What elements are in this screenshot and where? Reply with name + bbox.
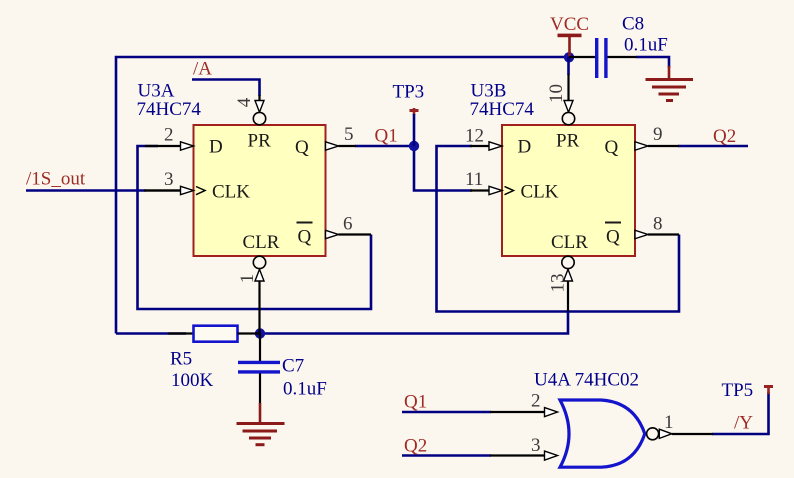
svg-text:74HC74: 74HC74	[137, 99, 202, 120]
svg-text:U4A 74HC02: U4A 74HC02	[534, 370, 639, 391]
svg-text:13: 13	[548, 274, 569, 293]
/1S_out black lead segment	[144, 189, 181, 191]
U3B pin 9 (Q) stub	[635, 142, 679, 150]
svg-text:Q: Q	[606, 227, 620, 248]
U3A pin 2 (D) stub	[145, 142, 194, 150]
svg-text:C8: C8	[622, 14, 644, 35]
svg-text:D: D	[518, 137, 532, 158]
ground for C7	[237, 403, 285, 445]
U4A pin 1 stub	[659, 429, 713, 438]
U3A pin 4 (PR) stub with bubble	[253, 95, 265, 125]
U3B pin 8 (Q̄) stub	[635, 230, 679, 238]
test point TP3	[410, 108, 419, 146]
svg-text:/A: /A	[193, 59, 212, 80]
svg-text:1: 1	[237, 274, 258, 284]
VCC power symbol	[558, 34, 582, 56]
svg-text:4: 4	[234, 97, 255, 107]
svg-text:D: D	[209, 137, 223, 158]
svg-text:CLR: CLR	[551, 232, 588, 253]
svg-text:10: 10	[546, 84, 567, 103]
U3A pin 6 (Q̄) stub	[326, 230, 372, 238]
wire C8 right to ground	[636, 57, 669, 68]
svg-text:R5: R5	[170, 349, 192, 370]
wire VCC top rail from left vertical to VCC junction	[116, 57, 569, 334]
svg-text:Q: Q	[295, 137, 309, 158]
svg-text:/1S_out: /1S_out	[26, 169, 86, 190]
U3B pin 11 (CLK) stub	[470, 186, 514, 194]
svg-text:1: 1	[664, 412, 674, 433]
U3B pin name Q̄	[605, 223, 621, 248]
U4A output bubble	[647, 428, 659, 440]
NOR gate U4A body	[560, 400, 645, 467]
svg-text:2: 2	[164, 125, 174, 146]
svg-text:0.1uF: 0.1uF	[283, 379, 327, 400]
wire Q̄A feedback to D of U3A	[138, 146, 372, 309]
svg-text:TP5: TP5	[722, 380, 754, 401]
svg-text:CLR: CLR	[243, 232, 280, 253]
wire CLR net from junction to CLR of U3B	[260, 310, 568, 334]
wire Q2 from pin9	[678, 145, 748, 148]
wire /1S_out to CLK of U3A	[26, 189, 146, 192]
U3A pin name Q̄	[297, 223, 313, 248]
wire /A net to PR of U3A	[192, 80, 260, 97]
svg-text:9: 9	[653, 124, 663, 145]
svg-text:TP3: TP3	[393, 82, 425, 103]
svg-text:Q: Q	[605, 137, 619, 158]
U3B pin 13 (CLR) stub with bubble	[562, 256, 574, 311]
svg-text:Q2: Q2	[713, 126, 736, 147]
wire Q̄B feedback to D of U3B	[437, 146, 680, 312]
svg-text:CLK: CLK	[521, 182, 559, 203]
svg-text:VCC: VCC	[550, 14, 589, 35]
op-amp U3B body	[502, 125, 635, 256]
svg-text:Q2: Q2	[404, 436, 427, 457]
svg-text:8: 8	[653, 214, 663, 235]
svg-text:6: 6	[343, 214, 353, 235]
resistor R5	[168, 326, 260, 342]
svg-text:0.1uF: 0.1uF	[624, 35, 668, 56]
svg-text:C7: C7	[282, 356, 304, 377]
svg-text:3: 3	[531, 435, 541, 456]
junction CLR/R5/C7 node	[255, 328, 265, 338]
op-amp U3A body	[194, 125, 326, 256]
svg-text:2: 2	[531, 391, 541, 412]
svg-text:11: 11	[465, 169, 483, 190]
svg-text:PR: PR	[248, 131, 272, 152]
svg-text:/Y: /Y	[734, 413, 753, 434]
svg-text:Q1: Q1	[404, 392, 427, 413]
wire Q1 from pin5 to junction	[355, 145, 414, 148]
svg-text:Q: Q	[298, 227, 312, 248]
U3B pin 10 (PR) stub with bubble	[562, 57, 574, 125]
svg-text:74HC74: 74HC74	[470, 99, 535, 120]
ground for C8	[646, 66, 694, 101]
U4A pin 3 stub	[490, 451, 558, 460]
svg-text:100K: 100K	[171, 370, 214, 391]
wire Q1 junction down to CLK of U3B	[414, 146, 472, 191]
capacitor C7	[238, 334, 280, 405]
U3B pin 12 (D) stub	[470, 142, 502, 150]
test point TP5	[764, 385, 773, 394]
wire CLR net left segment to R5	[116, 332, 186, 335]
wire Q1 to gate input pin2	[402, 411, 491, 414]
junction VCC node	[564, 52, 574, 62]
wire Q2 to gate input pin3	[402, 454, 491, 457]
svg-text:12: 12	[465, 126, 484, 147]
U3A pin 3 (CLK) stub	[146, 186, 205, 194]
svg-text:CLK: CLK	[212, 182, 250, 203]
svg-text:5: 5	[344, 124, 354, 145]
U3A pin 1 (CLR) stub with bubble	[253, 256, 265, 333]
wire /Y output to TP5	[712, 392, 769, 434]
svg-text:3: 3	[164, 169, 174, 190]
U3A pin 5 (Q) stub	[326, 142, 357, 150]
U4A pin 2 stub	[490, 408, 558, 417]
capacitor C8	[569, 38, 637, 78]
svg-text:PR: PR	[556, 131, 580, 152]
svg-text:Q1: Q1	[375, 126, 398, 147]
junction Q1/TP3 node	[409, 141, 419, 151]
